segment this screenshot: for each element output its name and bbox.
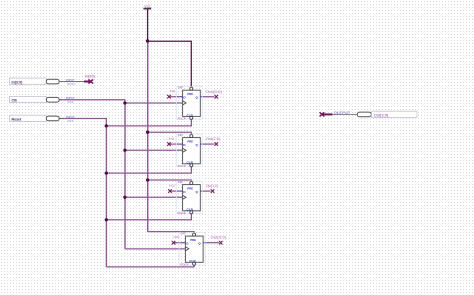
svg-text:Out(1:0): Out(1:0) [206,184,218,188]
svg-text:INPUT: INPUT [66,96,75,100]
svg-text:Out(0:0): Out(0:0) [211,236,226,240]
svg-text:Reset: Reset [12,118,23,122]
svg-text:Out(3:0): Out(3:0) [206,90,223,94]
svg-text:INPUT: INPUT [66,115,75,119]
svg-text:Clk: Clk [12,99,18,103]
svg-text:In[3:0]: In[3:0] [12,80,23,84]
svg-text:Out[3:0]: Out[3:0] [374,112,388,117]
svg-text:INPUT: INPUT [66,78,75,82]
svg-text:Out(2:0): Out(2:0) [206,137,220,141]
svg-text:In(3:0): In(3:0) [85,75,95,79]
svg-text:OUTPUT: OUTPUT [334,110,351,115]
